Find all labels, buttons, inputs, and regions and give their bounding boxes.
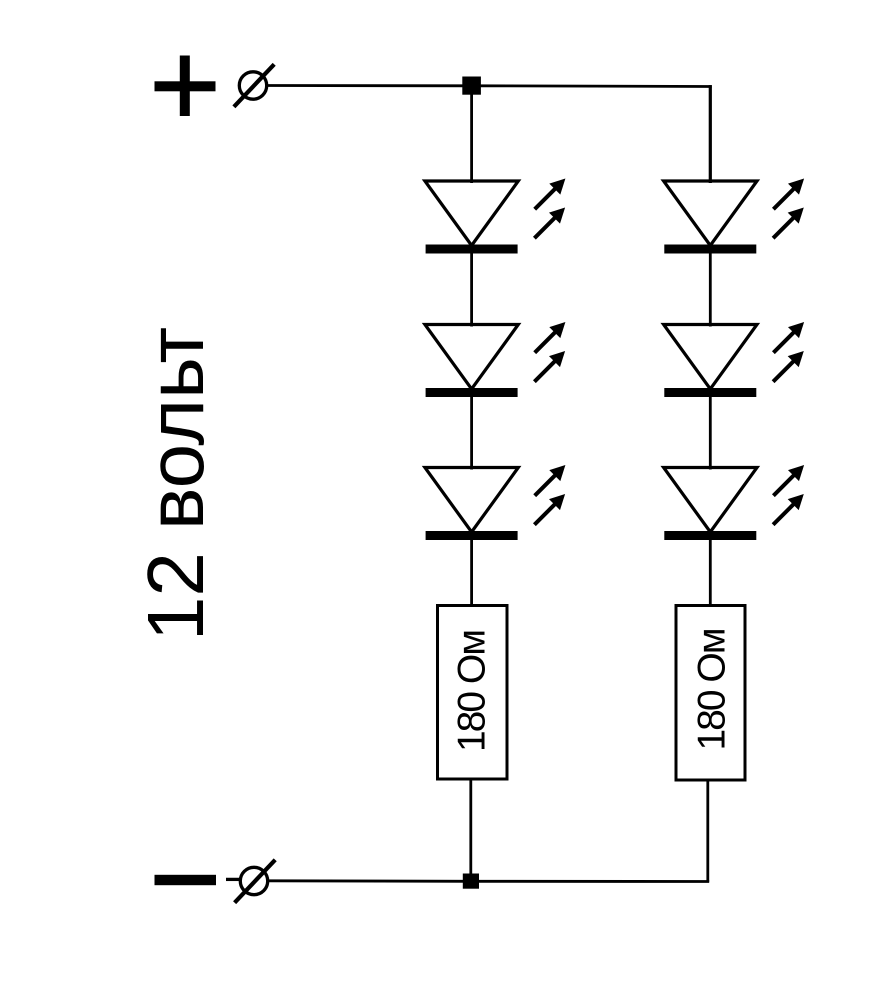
wire: D1 cathode to D2 anode xyxy=(470,253,473,327)
LED D2 xyxy=(425,325,518,398)
wire: node B to negative terminal xyxy=(269,879,471,882)
plus sign (positive polarity label) xyxy=(155,56,216,117)
svg-text:180 Ом: 180 Ом xyxy=(691,629,734,750)
wire: bottom-right corner to node B xyxy=(471,880,709,883)
LED D2 light emission arrows xyxy=(534,322,565,382)
wire: D5 cathode to D6 anode xyxy=(709,397,712,470)
resistor R2 body xyxy=(676,606,745,781)
LED D4 xyxy=(664,181,757,254)
wire: D6 cathode to resistor R2 xyxy=(709,540,712,607)
minus sign (negative polarity label) xyxy=(155,875,217,885)
positive terminal (circle with slash) xyxy=(234,64,274,107)
wire: D2 cathode to D3 anode xyxy=(470,397,473,470)
node B (bottom junction dot) xyxy=(463,874,479,889)
wire: node A down to LED D1 anode xyxy=(470,86,473,183)
wire: positive terminal to node A xyxy=(267,84,472,87)
svg-text:12 вольт: 12 вольт xyxy=(131,327,220,641)
LED D3 xyxy=(425,468,518,541)
LED D6 xyxy=(664,468,757,541)
negative terminal (circle with slash) xyxy=(226,860,275,903)
LED D5 xyxy=(664,325,757,398)
wire: top-right corner down to LED D4 anode xyxy=(709,85,712,183)
wire: D3 cathode to resistor R1 xyxy=(470,540,473,607)
wire: node A to top-right corner xyxy=(472,84,712,87)
LED D1 light emission arrows xyxy=(534,179,565,239)
LED D3 light emission arrows xyxy=(534,465,565,525)
wire: D4 cathode to D5 anode xyxy=(709,253,712,327)
LED D5 light emission arrows xyxy=(773,322,804,382)
wire: resistor R2 down to bottom-right corner xyxy=(706,780,709,882)
LED D4 light emission arrows xyxy=(773,179,804,239)
wire: resistor R1 to node B xyxy=(469,779,472,881)
svg-text:180 Ом: 180 Ом xyxy=(451,631,494,752)
node A (top junction dot) xyxy=(462,77,481,95)
LED D1 xyxy=(425,181,518,254)
resistor R1 body xyxy=(438,606,508,780)
LED D6 light emission arrows xyxy=(773,465,804,525)
